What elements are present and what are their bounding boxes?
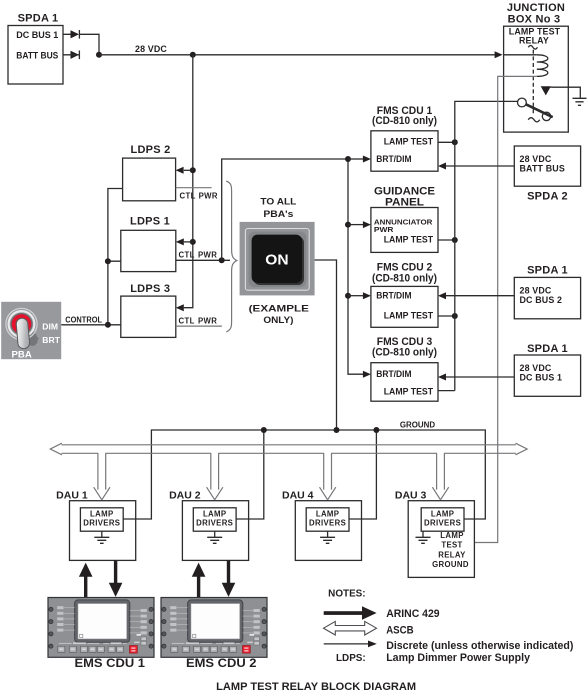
svg-text:CTL: CTL — [179, 250, 195, 259]
DAU 4 ground symbol — [320, 531, 335, 543]
svg-text:BRT/DIM: BRT/DIM — [376, 369, 411, 379]
LDPS 1 box — [121, 230, 176, 271]
svg-text:TO ALL: TO ALL — [260, 196, 297, 206]
svg-text:DC BUS 1: DC BUS 1 — [16, 30, 58, 40]
wire relay coil return (gray) — [474, 76, 537, 542]
svg-text:LAMP TEST: LAMP TEST — [384, 387, 434, 397]
svg-text:LDPS 2: LDPS 2 — [130, 144, 170, 156]
node ground DAU2 — [261, 427, 267, 433]
DAU 2 box — [182, 501, 248, 561]
ARINC arrow DAU1 down — [109, 560, 123, 597]
wire stub into guidance panel — [348, 224, 363, 226]
ON pushbutton annunciator — [240, 222, 315, 296]
svg-text:(CD-810 only): (CD-810 only) — [372, 347, 437, 359]
node 28VDC drop junction — [190, 52, 196, 58]
diode CR2 (BATT BUS output) — [71, 51, 80, 59]
wire DC BUS 2 to FMS CDU 2 — [445, 295, 514, 297]
svg-text:LAMP: LAMP — [440, 531, 464, 540]
DAU 1 lamp drivers box — [80, 508, 123, 531]
LDPS 2 CTL line — [176, 187, 212, 189]
wire FMS left bus — [348, 159, 363, 374]
PBA knob shadow — [22, 328, 41, 348]
ASCB drop to DAU 3 — [432, 452, 448, 500]
node lamp test bus tap 1 — [452, 139, 458, 145]
DAU 1 ground symbol — [94, 531, 109, 543]
node lamp test bus tap 2 — [452, 237, 458, 243]
svg-text:LAMP: LAMP — [203, 510, 227, 519]
svg-text:SPDA 1: SPDA 1 — [527, 343, 568, 355]
svg-text:TEST: TEST — [441, 541, 462, 550]
node FMS bus top — [345, 156, 351, 162]
ASCB drop to DAU 4 — [320, 452, 336, 500]
svg-text:DRIVERS: DRIVERS — [83, 519, 120, 528]
arrowhead into FMS CDU 1 BRT/DIM — [438, 163, 446, 170]
wire contact arm to chassis ground — [550, 87, 580, 98]
node junction of bus diodes — [96, 52, 102, 58]
svg-text:CTL: CTL — [180, 191, 196, 200]
svg-text:PWR: PWR — [374, 225, 394, 234]
svg-text:PBA's: PBA's — [263, 209, 293, 219]
wire FMS CDU 1 lamp test output — [438, 141, 455, 143]
LDPS 3 CTL line — [176, 325, 222, 327]
28 VDC DC BUS 2 box — [514, 277, 580, 318]
svg-text:LAMP TEST: LAMP TEST — [384, 235, 434, 245]
svg-text:DRIVERS: DRIVERS — [309, 519, 346, 528]
svg-text:NOTES:: NOTES: — [328, 588, 365, 599]
ASCB bus left arrowhead — [50, 443, 62, 455]
svg-text:BATT BUS: BATT BUS — [16, 50, 58, 60]
EMS CDU 1 device — [48, 598, 154, 658]
relay actuation squiggle top — [528, 46, 537, 50]
relay dashed actuation line — [532, 50, 534, 115]
wire lamp test bus to relay switch — [455, 101, 518, 390]
wire ON button output down to ground bus — [315, 260, 337, 430]
svg-text:CTL: CTL — [179, 317, 195, 326]
svg-text:SPDA 2: SPDA 2 — [527, 191, 568, 203]
node control tap LDPS 1 — [105, 258, 111, 264]
PBA knob red ring — [12, 314, 32, 334]
svg-text:SPDA 1: SPDA 1 — [18, 13, 59, 25]
node ground ON drop — [334, 427, 340, 433]
arrowhead into FMS CDU 3 — [363, 371, 371, 378]
ASCB bus lines — [62, 445, 516, 454]
LDPS 3 box — [121, 296, 176, 337]
legend ASCB arrow — [324, 621, 377, 635]
svg-text:(EXAMPLE: (EXAMPLE — [249, 303, 309, 313]
svg-text:SPDA 1: SPDA 1 — [527, 265, 568, 277]
DAU 1 box — [70, 501, 136, 561]
wire control daisy chain (left of LDPS boxes) — [108, 189, 122, 325]
svg-text:Lamp Dimmer Power Supply: Lamp Dimmer Power Supply — [386, 652, 531, 664]
wire ground drop DAU 4 — [349, 430, 376, 519]
svg-text:CONTROL: CONTROL — [65, 316, 102, 325]
svg-text:ARINC 429: ARINC 429 — [386, 608, 439, 620]
wire stub into FMS CDU 1 — [348, 158, 363, 160]
node guidance tap — [345, 222, 351, 228]
arrowhead into LDPS 2 — [176, 167, 184, 174]
svg-text:LAMP TEST RELAY BLOCK DIAGRAM: LAMP TEST RELAY BLOCK DIAGRAM — [216, 681, 416, 693]
wire PWR feed LDPS 2 — [184, 169, 193, 171]
junction box outline — [504, 26, 569, 132]
svg-text:PWR: PWR — [198, 250, 217, 259]
relay switch contact A — [518, 98, 527, 107]
svg-text:PWR: PWR — [198, 317, 217, 326]
svg-text:LAMP TEST: LAMP TEST — [384, 137, 434, 147]
svg-text:RELAY: RELAY — [519, 35, 549, 45]
SPDA 1 box — [8, 26, 63, 85]
wire FMS CDU 2 lamp test output — [438, 315, 455, 317]
svg-text:ON: ON — [265, 252, 288, 269]
legend ARINC 429 arrow — [324, 606, 377, 620]
svg-text:EMS CDU 1: EMS CDU 1 — [75, 656, 146, 670]
svg-text:EMS CDU 2: EMS CDU 2 — [186, 656, 257, 670]
wire CONTROL from PBA — [61, 324, 108, 326]
svg-text:PBA: PBA — [12, 349, 32, 360]
svg-text:BOX No 3: BOX No 3 — [508, 14, 561, 26]
svg-text:DAU 2: DAU 2 — [169, 490, 201, 501]
svg-text:ASCB: ASCB — [386, 625, 413, 637]
28 VDC BATT BUS box (SPDA 2) — [514, 146, 580, 186]
node LDPS1 PWR tap — [190, 239, 196, 245]
DAU 3 ground symbol — [416, 531, 431, 543]
DAU 3 box — [408, 501, 474, 578]
svg-text:LAMP: LAMP — [431, 510, 455, 519]
PBA knob outer rings — [6, 308, 37, 339]
arrowhead into FMS CDU 1 — [363, 156, 371, 163]
node ground DAU4 — [373, 427, 379, 433]
wire PWR feed LDPS 1 — [184, 241, 193, 243]
svg-text:LAMP: LAMP — [90, 510, 114, 519]
svg-text:DAU 3: DAU 3 — [395, 490, 427, 501]
svg-text:BATT BUS: BATT BUS — [520, 163, 565, 173]
ARINC arrow DAU1 up — [79, 563, 93, 598]
wire 28 VDC main run to junction box — [99, 54, 495, 56]
wire 28VDC vertical drop to LDPS column — [184, 55, 193, 308]
relay contact arm drive arrow — [541, 86, 551, 95]
svg-text:GROUND: GROUND — [432, 560, 469, 569]
svg-text:DAU 4: DAU 4 — [282, 490, 314, 501]
node control tap LDPS 3 — [105, 322, 111, 328]
wire LDPS 1 CTL to brace cusp — [176, 259, 230, 261]
svg-text:28 VDC: 28 VDC — [520, 363, 552, 373]
ARINC arrow DAU2 up — [192, 563, 206, 598]
svg-text:JUNCTION: JUNCTION — [507, 2, 565, 14]
wire 28VDC inside box to coil — [504, 54, 537, 56]
28 VDC DC BUS 1 box — [514, 355, 580, 396]
diode CR1 (DC BUS 1 output) — [71, 30, 80, 38]
arrowhead into FMS CDU 3 BRT/DIM — [438, 374, 446, 381]
PBA dimmer control panel — [1, 302, 61, 359]
DAU 4 box — [295, 501, 361, 561]
ASCB drop to DAU 2 — [207, 452, 223, 500]
wire BATT BUS to junction — [63, 54, 79, 56]
svg-text:RELAY: RELAY — [438, 550, 466, 559]
node LDPS2 PWR tap — [190, 167, 196, 173]
svg-text:(CD-810 only): (CD-810 only) — [372, 273, 437, 285]
svg-text:BRT/DIM: BRT/DIM — [376, 290, 411, 300]
svg-text:DC BUS 1: DC BUS 1 — [520, 373, 563, 383]
svg-text:DAU 1: DAU 1 — [56, 490, 88, 501]
relay squiggle bottom — [528, 118, 540, 122]
arrowhead into guidance panel — [363, 221, 371, 228]
LDPS 2 box — [123, 158, 176, 201]
arrowhead into LDPS 3 — [176, 304, 184, 311]
svg-text:BRT: BRT — [42, 335, 60, 345]
arrowhead into LDPS 1 — [176, 238, 184, 245]
wire CTL feed up to FMS bus — [222, 159, 348, 260]
wire stub into FMS CDU 2 — [348, 295, 363, 297]
svg-text:DC BUS 2: DC BUS 2 — [520, 295, 563, 305]
svg-text:28 VDC: 28 VDC — [135, 44, 167, 54]
svg-text:ONLY): ONLY) — [263, 315, 293, 325]
arrowhead into FMS CDU 2 BRT/DIM — [438, 292, 446, 299]
svg-text:LAMP TEST: LAMP TEST — [384, 310, 434, 320]
arrowhead into junction box — [495, 51, 503, 58]
svg-text:DRIVERS: DRIVERS — [196, 519, 233, 528]
svg-text:LDPS 1: LDPS 1 — [130, 216, 170, 228]
wire ground distribution — [123, 430, 485, 519]
node FMS2 tap — [345, 293, 351, 299]
svg-text:PWR: PWR — [199, 191, 218, 200]
wire DC BUS 1 to FMS CDU 3 — [445, 376, 514, 378]
relay coil K1 — [537, 55, 548, 77]
svg-text:DIM: DIM — [42, 322, 58, 332]
svg-text:(CD-810 only): (CD-810 only) — [372, 115, 437, 127]
wire DC BUS 1 to junction — [63, 34, 99, 55]
DAU 3 lamp drivers box — [421, 508, 464, 531]
svg-text:28 VDC: 28 VDC — [520, 154, 552, 164]
wire guidance lamp test output — [438, 239, 455, 241]
DAU 2 lamp drivers box — [193, 508, 236, 531]
brace grouping CTL lines — [226, 181, 237, 332]
FMS CDU 1 box — [371, 131, 438, 171]
svg-text:BRT/DIM: BRT/DIM — [376, 154, 411, 164]
DAU 4 lamp drivers box — [306, 508, 349, 531]
relay switch arm — [526, 104, 553, 117]
FMS CDU 3 box — [371, 363, 438, 402]
svg-text:28 VDC: 28 VDC — [520, 285, 552, 295]
svg-text:LDPS:: LDPS: — [336, 653, 366, 664]
FMS CDU 2 box — [371, 286, 438, 327]
svg-text:LDPS 3: LDPS 3 — [130, 283, 170, 295]
ASCB bus right arrowhead — [516, 443, 528, 455]
arrowhead into FMS CDU 2 — [363, 292, 371, 299]
svg-text:PANEL: PANEL — [385, 196, 424, 208]
chassis ground symbol — [573, 98, 587, 105]
wire FMS CDU 3 lamp test output to bus — [438, 390, 455, 392]
ASCB drop to DAU 1 — [94, 452, 110, 500]
DAU 2 ground symbol — [207, 531, 222, 543]
node lamp test bus tap 3 — [452, 313, 458, 319]
wire ground drop DAU 2 — [236, 430, 264, 519]
GUIDANCE PANEL box — [371, 208, 438, 253]
EMS CDU 2 device — [161, 598, 267, 658]
node CTL junction at brace — [219, 257, 225, 263]
svg-text:LAMP: LAMP — [316, 510, 340, 519]
relay switch contact B — [542, 112, 550, 120]
ARINC arrow DAU2 down — [222, 560, 236, 597]
svg-text:Discrete (unless otherwise ind: Discrete (unless otherwise indicated) — [386, 640, 574, 652]
wire BATT BUS to FMS CDU 1 — [445, 165, 514, 167]
svg-text:DRIVERS: DRIVERS — [424, 519, 461, 528]
legend discrete arrow — [324, 641, 377, 648]
svg-text:GROUND: GROUND — [400, 420, 436, 429]
